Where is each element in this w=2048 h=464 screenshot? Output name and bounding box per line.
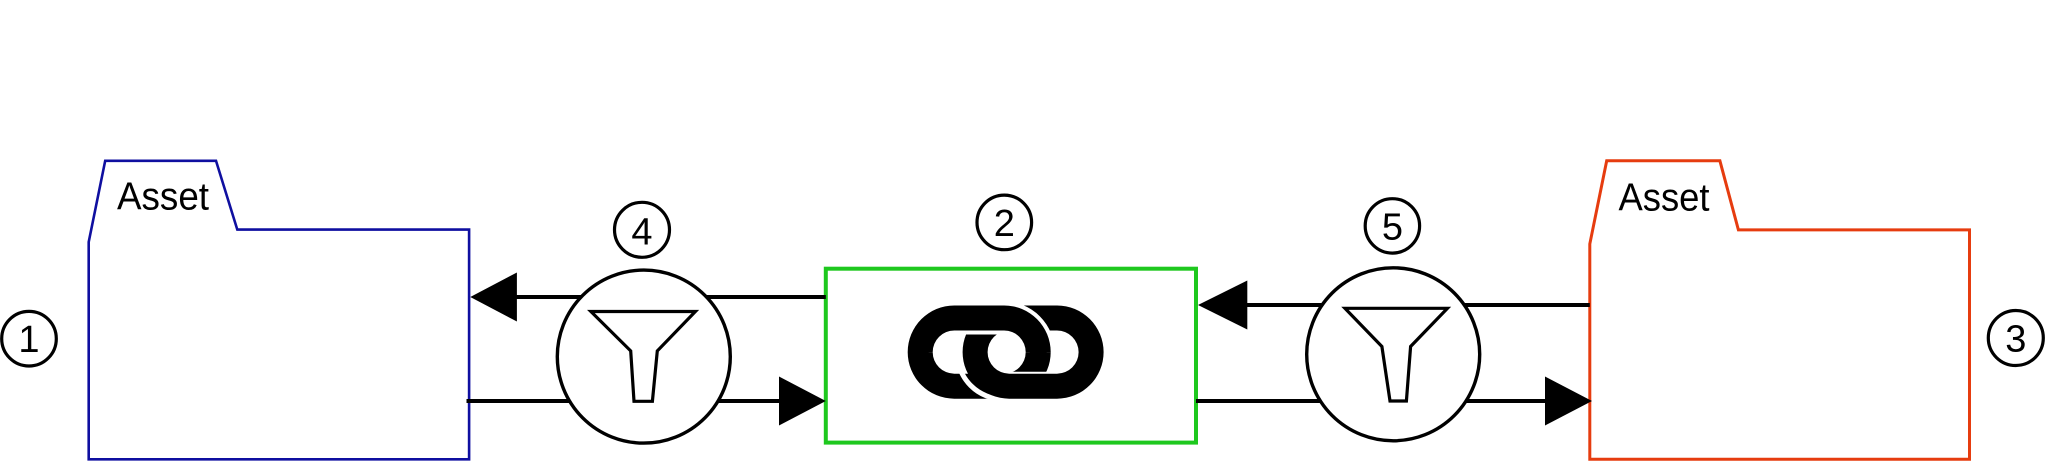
svg-text:2: 2 — [994, 203, 1015, 245]
svg-text:Asset: Asset — [117, 175, 209, 218]
svg-text:5: 5 — [1382, 206, 1403, 248]
svg-text:4: 4 — [631, 211, 652, 253]
svg-text:Asset: Asset — [1619, 177, 1710, 220]
svg-text:3: 3 — [2005, 319, 2026, 361]
svg-text:1: 1 — [18, 319, 39, 361]
